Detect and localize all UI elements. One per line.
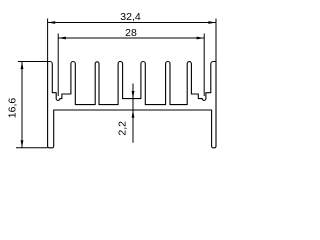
extension line top of dim 16,6 <box>18 61 48 63</box>
extension line bottom of dim 16,6 <box>16 147 48 149</box>
heatsink extrusion profile outline (left wall, screw channels, 6 fins, base, feet) <box>48 61 216 147</box>
arrowhead bottom 16,6 <box>21 140 24 148</box>
dimension line 16,6 <box>21 62 23 148</box>
arrowhead left 32,4 <box>48 21 56 24</box>
extension line right of dim 28 <box>203 34 205 97</box>
arrowhead up 2,2 (points at base underside) <box>132 110 135 118</box>
arrowhead right 28 <box>197 37 205 40</box>
arrowhead down 2,2 (points at middle slot bottom) <box>132 91 135 99</box>
extension line left of dim 28 <box>57 34 59 97</box>
svg-text:32,4: 32,4 <box>120 11 141 23</box>
extension/dimension line of dim 2,2 <box>132 84 134 143</box>
svg-text:16,6: 16,6 <box>7 98 19 119</box>
dimension line 32,4 <box>48 22 216 24</box>
arrowhead left 28 <box>58 37 66 40</box>
arrowhead top 16,6 <box>21 62 24 70</box>
svg-text:28: 28 <box>125 27 137 39</box>
arrowhead right 32,4 <box>208 21 216 24</box>
extension line right of dim 32,4 <box>215 19 217 62</box>
svg-text:2,2: 2,2 <box>116 121 128 136</box>
dimension line 28 <box>58 37 204 39</box>
extension line left of dim 32,4 <box>47 19 49 62</box>
